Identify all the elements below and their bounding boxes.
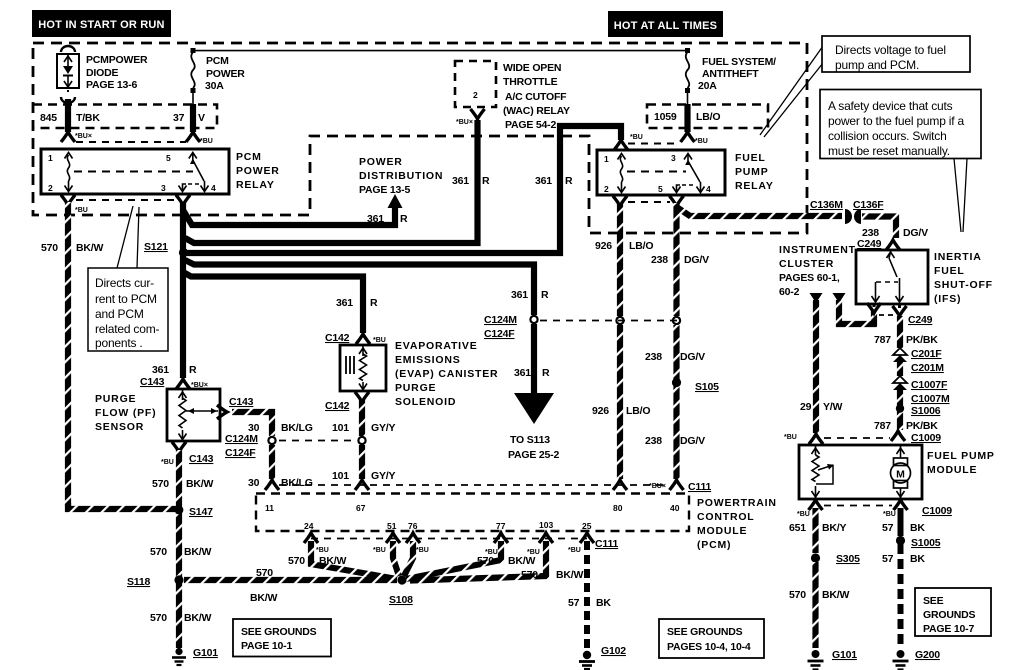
svg-text:80: 80: [613, 503, 623, 513]
svg-text:Y/W: Y/W: [823, 401, 843, 413]
svg-text:DISTRIBUTION: DISTRIBUTION: [359, 170, 443, 182]
note box SEE GROUNDS PAGE 10-1: [233, 619, 331, 657]
svg-text:EVAPORATIVE: EVAPORATIVE: [395, 340, 478, 352]
coil fuel pump relay: [618, 154, 626, 160]
svg-text:S118: S118: [127, 576, 151, 588]
svg-text:5: 5: [658, 184, 663, 194]
svg-text:*BU: *BU: [568, 547, 581, 554]
svg-text:361: 361: [336, 297, 353, 309]
svg-text:WIDE OPEN: WIDE OPEN: [503, 62, 561, 74]
node S121: [179, 248, 188, 257]
svg-text:BK/Y: BK/Y: [822, 522, 846, 534]
svg-text:S108: S108: [389, 594, 413, 606]
svg-text:FUEL PUMP: FUEL PUMP: [927, 450, 995, 462]
svg-text:570: 570: [789, 589, 806, 601]
svg-text:INSTRUMENT: INSTRUMENT: [779, 244, 856, 256]
svg-text:C201F: C201F: [911, 348, 942, 360]
label INERTIA FUEL SHUT-OFF (IFS): [934, 251, 993, 305]
dashed connector line C124 (upper): [540, 320, 680, 322]
fork IFS left pin: [867, 303, 881, 313]
svg-text:must be reset manually.: must be reset manually.: [828, 144, 950, 158]
svg-text:TO S113: TO S113: [510, 434, 550, 446]
node S1005: [896, 536, 905, 545]
svg-text:PCMPOWER: PCMPOWER: [86, 54, 148, 66]
svg-text:BK/W: BK/W: [250, 592, 277, 604]
svg-text:570: 570: [521, 569, 538, 581]
svg-text:MODULE: MODULE: [697, 525, 747, 537]
svg-text:*BU×: *BU×: [649, 483, 666, 490]
svg-text:RELAY: RELAY: [735, 180, 774, 192]
label WIDE OPEN THROTTLE A/C CUTOFF (WAC) RELAY PAGE 54-2: [503, 62, 570, 131]
svg-text:S1005: S1005: [911, 537, 941, 549]
svg-text:MODULE: MODULE: [927, 464, 977, 476]
svg-text:HOT IN START OR RUN: HOT IN START OR RUN: [38, 19, 164, 31]
dashed connector line C111 (PCM bottom): [311, 538, 587, 540]
svg-text:570: 570: [256, 567, 273, 579]
label 570 BK/W: [477, 555, 535, 567]
svg-text:SEE: SEE: [923, 595, 944, 607]
label 570 BK/W: [150, 612, 211, 624]
svg-text:C136M: C136M: [810, 199, 843, 211]
label 570 BK/W: [789, 589, 849, 601]
ground G101: [172, 648, 186, 665]
svg-text:FLOW (PF): FLOW (PF): [95, 407, 156, 419]
wire 361 R to WAC relay: [185, 120, 478, 243]
svg-text:C143: C143: [229, 396, 254, 408]
svg-text:BK/W: BK/W: [822, 589, 849, 601]
svg-text:3: 3: [161, 183, 166, 193]
svg-text:(WAC) RELAY: (WAC) RELAY: [503, 105, 570, 117]
svg-text:and PCM: and PCM: [95, 307, 144, 321]
svg-text:C1009: C1009: [911, 432, 941, 444]
label 787 PK/BK: [874, 420, 938, 432]
svg-text:PAGE 54-2: PAGE 54-2: [505, 119, 556, 131]
connector dashes below fuel pump relay: [628, 201, 670, 203]
ground G101 right: [808, 650, 824, 670]
svg-text:PCM: PCM: [236, 151, 262, 163]
fork PCM pin 11: [265, 480, 279, 490]
wire 361 R to fuel pump relay pin 1: [185, 126, 621, 253]
svg-text:power to the fuel pump if a: power to the fuel pump if a: [828, 114, 965, 128]
svg-text:G200: G200: [915, 649, 940, 661]
label 57 BK: [882, 522, 925, 534]
label 570 BK/W: [288, 555, 346, 567]
sensor PURGE FLOW (PF) SENSOR: [167, 389, 220, 441]
svg-text:S1006: S1006: [911, 405, 941, 417]
wire 570 BK/W S305 to G101: [812, 562, 818, 648]
fork WAC wire: [471, 109, 485, 119]
svg-text:57: 57: [882, 522, 894, 534]
wire 570 BK/W PF sensor to ground: [176, 450, 182, 648]
label 651 BK/Y: [789, 522, 846, 534]
svg-text:*BU: *BU: [883, 511, 896, 518]
svg-text:DIODE: DIODE: [86, 67, 118, 79]
svg-text:SOLENOID: SOLENOID: [395, 396, 456, 408]
svg-text:T/BK: T/BK: [76, 112, 100, 124]
wire PCM pin 103 to S108: [410, 533, 553, 581]
fork C143 bottom: [172, 442, 186, 452]
wire thin bus from fuse to fuse: [193, 50, 688, 52]
wire PCM pin 51 to S108: [386, 533, 400, 576]
fork module bottom right: [894, 500, 908, 510]
ground G102: [579, 651, 595, 669]
svg-text:C249: C249: [908, 314, 933, 326]
node S108: [397, 575, 406, 584]
svg-text:361: 361: [514, 367, 531, 379]
callout box Directs current to PCM: [88, 268, 168, 351]
wire 30 BK/LG from PF sensor: [217, 405, 272, 436]
wire 1059 LB/O: [684, 104, 690, 132]
svg-text:PAGE 13-5: PAGE 13-5: [359, 184, 410, 196]
svg-text:76: 76: [408, 521, 418, 531]
wire 361 R to power distribution arrow: [183, 205, 395, 225]
svg-text:PAGE 10-1: PAGE 10-1: [241, 640, 292, 652]
label 238 DG/V: [862, 227, 928, 239]
note box SEE GROUNDS PAGE 10-7: [915, 588, 991, 636]
fork 845 wire: [61, 132, 75, 142]
callout box A safety device: [820, 90, 981, 159]
svg-text:PCM: PCM: [206, 55, 229, 67]
svg-text:67: 67: [356, 503, 366, 513]
node S105: [672, 378, 681, 387]
svg-text:PK/BK: PK/BK: [906, 420, 938, 432]
dashed connector line C111 (PCM top): [279, 484, 668, 486]
svg-text:Directs cur-: Directs cur-: [95, 276, 154, 290]
svg-text:BK: BK: [910, 522, 925, 534]
wire 29 Y/W cluster to fuel pump module: [813, 300, 819, 433]
svg-text:BK/W: BK/W: [184, 546, 211, 558]
svg-text:*BU: *BU: [695, 138, 708, 145]
ground G200: [893, 650, 909, 670]
svg-text:C111: C111: [595, 538, 619, 550]
label 57 BK: [882, 553, 925, 565]
svg-text:THROTTLE: THROTTLE: [503, 76, 558, 88]
svg-text:787: 787: [874, 334, 891, 346]
callout pointer directs voltage: [760, 46, 823, 137]
svg-text:C201M: C201M: [911, 362, 944, 374]
dashed fuse-panel enclosure: [33, 43, 807, 233]
svg-text:INERTIA: INERTIA: [934, 251, 982, 263]
connector C124M/C124F bubble: [530, 316, 537, 323]
svg-text:FUEL SYSTEM/: FUEL SYSTEM/: [702, 56, 776, 68]
stub IFS left pin: [873, 304, 876, 307]
svg-text:2: 2: [604, 184, 609, 194]
svg-text:POWERTRAIN: POWERTRAIN: [697, 497, 777, 509]
switch INERTIA FUEL SHUT-OFF (IFS): [856, 250, 928, 304]
svg-text:RELAY: RELAY: [236, 179, 275, 191]
svg-text:R: R: [542, 367, 550, 379]
fork C142 bottom: [355, 392, 369, 402]
label C124M C124F: [225, 433, 258, 459]
fuel level sender: [815, 446, 817, 455]
svg-text:*BU: *BU: [75, 207, 88, 214]
connector dashes below PCM power relay: [76, 199, 176, 201]
switch PCM relay: [189, 153, 197, 159]
motor M: [900, 446, 902, 458]
module POWERTRAIN CONTROL MODULE dashed box: [256, 494, 689, 532]
wire 845 T/BK: [65, 99, 71, 132]
wire 926 LB/O relay pin2 to PCM pin 80: [613, 196, 627, 490]
svg-text:*BU: *BU: [630, 134, 643, 141]
label FUEL SYSTEM/ANTITHEFT 20A: [698, 56, 776, 92]
coil PCM relay: [65, 153, 73, 159]
svg-text:24: 24: [304, 521, 314, 531]
node S1006: [896, 404, 904, 412]
svg-text:PAGE 13-6: PAGE 13-6: [86, 79, 137, 91]
fork PCM pin 67: [355, 480, 369, 490]
svg-text:PURGE: PURGE: [95, 393, 136, 405]
svg-text:570: 570: [152, 478, 169, 490]
svg-text:29: 29: [800, 401, 812, 413]
svg-text:570: 570: [150, 546, 167, 558]
svg-text:FUEL: FUEL: [934, 265, 965, 277]
svg-text:101: 101: [332, 422, 349, 434]
label 238 DG/V: [645, 435, 705, 447]
svg-text:PAGES 60-1,: PAGES 60-1,: [779, 272, 840, 284]
svg-text:pump and PCM.: pump and PCM.: [835, 58, 919, 72]
svg-text:570: 570: [477, 555, 494, 567]
svg-text:4: 4: [211, 183, 216, 193]
svg-text:*BU: *BU: [527, 549, 540, 556]
wire 30 BK/LG lower: [269, 445, 275, 479]
label 570 BK/W: [152, 478, 213, 490]
svg-text:C124F: C124F: [484, 328, 515, 340]
svg-text:1: 1: [604, 154, 609, 164]
wire 361 R to EVAP solenoid: [183, 272, 363, 333]
label PCM POWER 30A: [205, 55, 245, 92]
svg-text:BK/W: BK/W: [556, 569, 583, 581]
svg-text:C124F: C124F: [225, 447, 256, 459]
callout pointer safety device: [954, 159, 967, 233]
svg-text:37: 37: [173, 112, 185, 124]
wire S118 to S108 570 BK/W: [184, 577, 397, 583]
label POWERTRAIN CONTROL MODULE (PCM): [697, 497, 777, 551]
svg-text:HOT AT ALL TIMES: HOT AT ALL TIMES: [614, 20, 717, 32]
switch fuel pump relay: [684, 154, 692, 160]
relay U2 FUEL PUMP RELAY: [597, 150, 725, 195]
svg-text:S305: S305: [836, 553, 860, 565]
svg-text:ponents .: ponents .: [95, 336, 143, 350]
callout pointer directs current: [117, 206, 139, 268]
svg-text:238: 238: [651, 254, 668, 266]
label 787 PK/BK: [874, 334, 938, 346]
svg-text:2: 2: [48, 183, 53, 193]
relay U1 PCM POWER RELAY: [41, 149, 229, 194]
label 29 Y/W: [800, 401, 843, 413]
svg-text:30A: 30A: [205, 80, 224, 92]
svg-text:*BU: *BU: [797, 511, 810, 518]
svg-text:BK/W: BK/W: [184, 612, 211, 624]
wire 101 GY/Y: [359, 399, 365, 436]
svg-text:PUMP: PUMP: [735, 166, 769, 178]
label FUEL PUMP MODULE: [927, 450, 995, 476]
wire 361 R to C124M: [185, 260, 534, 315]
header HOT AT ALL TIMES: [608, 11, 723, 37]
svg-text:C143: C143: [189, 453, 214, 465]
fork C1009 left: [809, 434, 823, 444]
svg-text:C142: C142: [325, 332, 350, 344]
arrow instrument cluster wire A: [810, 293, 823, 303]
header HOT IN START OR RUN: [32, 10, 171, 37]
svg-text:51: 51: [387, 521, 397, 531]
label PCM POWER RELAY: [236, 151, 280, 191]
label FUEL PUMP RELAY: [735, 152, 774, 192]
label 361 R: [336, 297, 378, 309]
dashed connector box 1059: [647, 105, 768, 129]
svg-text:845: 845: [40, 112, 57, 124]
fork 37 wire: [186, 132, 200, 142]
svg-text:*BU: *BU: [161, 459, 174, 466]
node S305: [811, 553, 820, 562]
label POWER DISTRIBUTION PAGE 13-5: [359, 156, 443, 196]
label 30 BK/LG: [248, 422, 313, 434]
marker A TO S113: [514, 393, 554, 424]
arrow power distribution: [388, 194, 403, 208]
connector C1007F/C1007M: [893, 376, 907, 390]
svg-text:GY/Y: GY/Y: [371, 422, 395, 434]
svg-text:25: 25: [582, 521, 592, 531]
label 57 BK: [568, 597, 611, 609]
svg-text:361: 361: [511, 289, 528, 301]
fork C249 top: [886, 240, 900, 250]
wire 787 segment: [897, 390, 903, 430]
svg-text:LB/O: LB/O: [629, 240, 653, 252]
svg-text:BK/LG: BK/LG: [281, 477, 313, 489]
svg-text:361: 361: [367, 213, 384, 225]
label 37 V: [173, 112, 205, 124]
label 361 R: [452, 175, 490, 187]
label 238 DG/V: [651, 254, 709, 266]
wire 570 BK/W from relay pin 2: [61, 195, 176, 509]
svg-text:BK/W: BK/W: [76, 242, 103, 254]
dashed connector line C249: [879, 314, 893, 316]
svg-text:103: 103: [539, 520, 553, 530]
svg-text:SEE GROUNDS: SEE GROUNDS: [241, 626, 317, 638]
stub IFS right pin: [898, 304, 901, 308]
label C136M C136F: [810, 199, 884, 211]
label 361 R: [535, 175, 573, 187]
svg-text:BK/W: BK/W: [508, 555, 535, 567]
fuse PCM POWER 30A: [191, 48, 196, 104]
callout box Directs voltage to fuel pump and PCM: [822, 36, 970, 72]
wire 238 DG/V relay pin5 to PCM pin 40: [670, 196, 684, 490]
svg-text:PURGE: PURGE: [395, 382, 436, 394]
label EVAPORATIVE EMISSIONS (EVAP) CANISTER PURGE SOLENOID: [395, 340, 498, 408]
svg-text:*BU×: *BU×: [75, 133, 92, 140]
svg-text:3: 3: [671, 153, 676, 163]
svg-text:collision occurs. Switch: collision occurs. Switch: [828, 129, 947, 143]
svg-text:*BU: *BU: [373, 547, 386, 554]
arrow instrument cluster wire B: [833, 293, 846, 303]
label 926 LB/O: [595, 240, 653, 252]
svg-text:651: 651: [789, 522, 806, 534]
svg-text:G101: G101: [193, 647, 218, 659]
label 101 GY/Y: [332, 422, 395, 434]
label 1059 LB/O: [654, 111, 720, 123]
dashed connector band 845/37: [33, 105, 217, 129]
fork C249 below IFS right: [893, 306, 907, 316]
svg-text:PAGE 25-2: PAGE 25-2: [508, 449, 559, 461]
svg-text:*BU: *BU: [373, 337, 386, 344]
label 570 BK/W: [521, 569, 583, 581]
label 361 R: [367, 213, 408, 225]
label 101 GY/Y: [332, 470, 395, 482]
svg-text:SEE GROUNDS: SEE GROUNDS: [667, 626, 743, 638]
svg-text:57: 57: [568, 597, 580, 609]
svg-text:101: 101: [332, 470, 349, 482]
svg-text:LB/O: LB/O: [696, 111, 720, 123]
wire 238 DG/V to IFS: [862, 217, 896, 239]
svg-text:A safety device that cuts: A safety device that cuts: [828, 99, 953, 113]
fork module bottom left: [809, 500, 823, 510]
wire 37 V: [190, 104, 196, 132]
svg-text:CLUSTER: CLUSTER: [779, 258, 834, 270]
svg-text:GY/Y: GY/Y: [371, 470, 395, 482]
svg-text:CONTROL: CONTROL: [697, 511, 755, 523]
svg-text:570: 570: [41, 242, 58, 254]
svg-text:(EVAP) CANISTER: (EVAP) CANISTER: [395, 368, 498, 380]
wire 238 DG/V branch to C136M: [677, 207, 843, 216]
svg-text:C143: C143: [140, 376, 165, 388]
dashed box WAC relay pin 2: [455, 61, 496, 107]
label 570 BK/W: [150, 546, 211, 558]
svg-text:V: V: [198, 112, 205, 124]
svg-text:GROUNDS: GROUNDS: [923, 609, 975, 621]
wire 651 BK/Y module to S305: [812, 508, 818, 553]
label TO S113 PAGE 25-2: [508, 434, 559, 461]
svg-text:DG/V: DG/V: [903, 227, 928, 239]
svg-text:PAGE 10-7: PAGE 10-7: [923, 623, 974, 635]
svg-text:BK: BK: [910, 553, 925, 565]
svg-text:787: 787: [874, 420, 891, 432]
wire 787 segment: [897, 362, 903, 376]
svg-text:A: A: [529, 400, 539, 415]
svg-text:G101: G101: [832, 649, 857, 661]
label 30 BK/LG: [248, 477, 313, 489]
svg-text:A/C CUTOFF: A/C CUTOFF: [505, 91, 567, 103]
wire 101 GY/Y lower: [359, 445, 365, 479]
svg-text:C136F: C136F: [853, 199, 884, 211]
wire PCM pin 25 to G102 57 BK: [580, 533, 594, 648]
svg-text:SENSOR: SENSOR: [95, 421, 144, 433]
svg-text:361: 361: [535, 175, 552, 187]
connector C124 bubble: [268, 437, 275, 444]
svg-text:40: 40: [670, 503, 680, 513]
svg-text:C124M: C124M: [225, 433, 258, 445]
svg-text:G102: G102: [601, 645, 626, 657]
fork 1059 wire: [681, 132, 695, 142]
svg-text:PK/BK: PK/BK: [906, 334, 938, 346]
svg-text:*BU: *BU: [784, 434, 797, 441]
fork C1009 right: [891, 431, 905, 441]
svg-text:BK: BK: [596, 597, 611, 609]
svg-text:S121: S121: [144, 241, 168, 253]
svg-text:LB/O: LB/O: [626, 405, 650, 417]
svg-text:EMISSIONS: EMISSIONS: [395, 354, 461, 366]
node S118: [174, 575, 183, 584]
svg-text:20A: 20A: [698, 80, 717, 92]
connector C136M/C136F: [845, 209, 861, 224]
svg-text:BK/W: BK/W: [319, 555, 346, 567]
label INSTRUMENT CLUSTER PAGES 60-1, 60-2: [779, 244, 856, 298]
svg-text:C1007F: C1007F: [911, 379, 948, 391]
fuse FUEL SYSTEM/ANTITHEFT 20A: [685, 48, 690, 104]
svg-text:*BU: *BU: [200, 138, 213, 145]
svg-text:60-2: 60-2: [779, 286, 800, 298]
svg-text:361: 361: [452, 175, 469, 187]
svg-text:C124M: C124M: [484, 314, 517, 326]
label PCMPOWER DIODE PAGE 13-6: [86, 54, 148, 91]
